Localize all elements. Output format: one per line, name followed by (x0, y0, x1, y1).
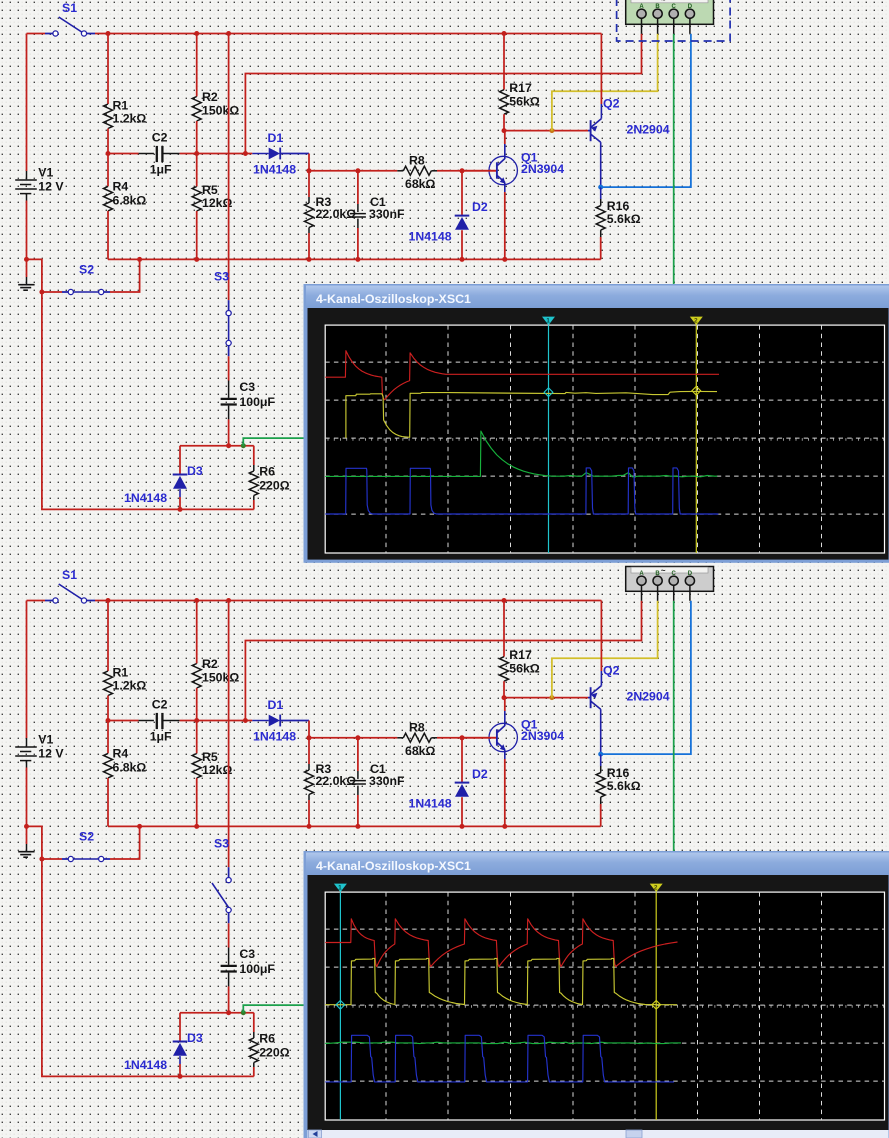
svg-text:1: 1 (338, 885, 342, 892)
svg-text:56kΩ: 56kΩ (509, 95, 540, 109)
cursor 1 (cyan) b (339, 892, 341, 1120)
node junction S1-R1 (106, 31, 111, 36)
resistor R4 (copy 2) (107, 721, 109, 754)
node junction R3-bottom rail (copy 2) (307, 824, 312, 829)
wire green pin C (673, 34, 675, 287)
node junction rail-R17 (502, 31, 507, 36)
svg-text:R2: R2 (202, 657, 218, 671)
svg-text:6.8kΩ: 6.8kΩ (113, 761, 147, 775)
transistor Q2 2N2904 (590, 120, 592, 141)
svg-text:S2: S2 (79, 830, 94, 844)
battery V1 (26, 34, 28, 172)
svg-text:1.2kΩ: 1.2kΩ (113, 679, 147, 693)
wire battery to S2 (copy 2) (27, 826, 42, 859)
node junction yellow tap (copy 2) (549, 695, 554, 700)
wire S3 to C3 (228, 356, 230, 380)
node junction D2-bottom rail (copy 2) (460, 824, 465, 829)
node junction R2-C2 (194, 151, 199, 156)
wire top V+ rail (27, 33, 46, 35)
scope grid a (325, 325, 884, 553)
svg-text:R5: R5 (202, 183, 218, 197)
svg-text:D3: D3 (187, 464, 203, 478)
scope grid b (325, 892, 884, 1120)
node junction green tap (copy 2) (241, 1010, 246, 1015)
svg-text:5.6kΩ: 5.6kΩ (607, 779, 641, 793)
svg-text:R6: R6 (259, 1032, 275, 1046)
channel C trace (green) a (325, 431, 717, 477)
connector XSC1 terminals block (626, 0, 714, 24)
transistor Q1 2N3904 (copy 2) (489, 723, 517, 751)
wire base row (309, 170, 397, 172)
channel D trace (blue) b (325, 1035, 674, 1082)
channel D trace (blue) a (325, 468, 718, 514)
node junction Q1 emitter-bottom rail (copy 2) (502, 824, 507, 829)
svg-text:~: ~ (661, 566, 666, 575)
node junction R17-Q1 collector (copy 2) (502, 695, 507, 700)
cursor crossing marker 1 b (336, 1000, 345, 1009)
channel B trace (yellow) a (346, 391, 717, 438)
ground (26, 277, 28, 285)
title bar b (306, 853, 889, 875)
wire S3 to C3 (copy 2) (228, 923, 230, 947)
switch S3 (closed) (228, 300, 230, 310)
wire pin A rail (copy 2) (245, 601, 641, 721)
svg-text:S1: S1 (62, 568, 77, 582)
scope body a (308, 308, 889, 560)
scope screen b (325, 892, 884, 1120)
svg-text:2: 2 (694, 318, 698, 325)
connector XSC1 terminals block (copy 2) (626, 567, 714, 592)
svg-text:R8: R8 (409, 154, 425, 168)
resistor R8 68k (copy 2) (397, 737, 403, 739)
svg-text:68kΩ: 68kΩ (405, 177, 436, 191)
wire S3 riser (228, 34, 230, 301)
wire D1 cathode down (copy 2) (308, 721, 310, 738)
diode D2 1N4148 (460, 168, 465, 173)
wire top V+ rail (copy 2) (27, 600, 46, 602)
svg-text:12 V: 12 V (38, 747, 64, 761)
cursor crossing marker 2 b (652, 1000, 661, 1009)
resistor R3 22k (copy 2) (308, 738, 310, 764)
node junction Q1 emitter-bottom rail (502, 257, 507, 262)
capacitor C1 330nF (copy 2) (355, 735, 360, 740)
resistor R5 (copy 2) (196, 721, 198, 754)
svg-text:D3: D3 (187, 1031, 203, 1045)
node junction R2-C2 (copy 2) (194, 718, 199, 723)
svg-text:2: 2 (654, 885, 658, 892)
wire Q2 emitter to V+ rail (600, 34, 602, 105)
svg-text:1.2kΩ: 1.2kΩ (113, 112, 147, 126)
wire S2 to bottom rail (110, 259, 140, 292)
channel A trace (red) b (325, 919, 677, 967)
resistor R16 5.6k (copy 2) (600, 754, 602, 766)
svg-text:S2: S2 (79, 263, 94, 277)
wire pin A rail (245, 34, 641, 154)
node junction S2-left (39, 290, 44, 295)
svg-text:R1: R1 (113, 666, 129, 680)
wire blue pin D (601, 34, 691, 187)
svg-text:Q2: Q2 (603, 97, 620, 111)
svg-text:V1: V1 (38, 733, 53, 747)
node junction rail-S3 (copy 2) (226, 598, 231, 603)
svg-text:1N4148: 1N4148 (124, 1058, 167, 1072)
channel B trace (yellow) b (325, 958, 677, 1004)
node junction D1-R3-R8 (copy 2) (307, 735, 312, 740)
node junction rail-R17 (copy 2) (502, 598, 507, 603)
resistor R2 (copy 2) (196, 601, 198, 664)
wire blue pin D (copy 2) (601, 601, 691, 754)
svg-text:R17: R17 (509, 81, 532, 95)
node junction S1-R1 (copy 2) (106, 598, 111, 603)
wire green to scope (243, 438, 304, 446)
svg-text:R6: R6 (259, 465, 275, 479)
wire S3 riser (copy 2) (228, 601, 230, 868)
resistor R17 56k (503, 34, 505, 90)
svg-text:6.8kΩ: 6.8kΩ (113, 194, 147, 208)
node junction D3-bottom (copy 2) (178, 1074, 183, 1079)
svg-text:C2: C2 (152, 131, 168, 145)
svg-text:150kΩ: 150kΩ (202, 671, 239, 685)
switch S1 (45, 33, 53, 35)
wire yellow pin B (552, 34, 658, 131)
capacitor C2 (copy 2) (108, 720, 139, 722)
node junction C2 row-pinA drop (243, 151, 248, 156)
switch S2 (closed) (copy 2) (42, 858, 62, 860)
wire battery to S2 (27, 259, 42, 292)
resistor R6 220 (253, 446, 255, 465)
diode D3 1N4148 (179, 446, 181, 475)
svg-text:1N4148: 1N4148 (409, 797, 452, 811)
cursor crossing marker 2 a (692, 386, 701, 395)
svg-text:D1: D1 (268, 131, 284, 145)
resistor R3 22k (308, 171, 310, 197)
resistor R5 (196, 154, 198, 187)
wire D1 cathode down (308, 154, 310, 171)
svg-text:2N3904: 2N3904 (521, 729, 564, 743)
wire C2 to D1 node (180, 153, 246, 155)
diode D2 1N4148 (copy 2) (460, 735, 465, 740)
resistor R17 56k (copy 2) (503, 601, 505, 657)
scope time axis a (325, 437, 884, 439)
svg-text:~: ~ (661, 0, 666, 4)
svg-text:R2: R2 (202, 90, 218, 104)
wire green pin C (copy 2) (673, 601, 675, 1138)
node junction C1-bottom rail (copy 2) (355, 824, 360, 829)
switch S3 (open) (copy 2) (228, 867, 230, 877)
resistor R4 (107, 154, 109, 187)
node junction D2-bottom rail (460, 257, 465, 262)
diode D1 1N4148 (245, 153, 252, 155)
wire yellow pin B (copy 2) (552, 601, 658, 698)
resistor R2 (196, 34, 198, 97)
svg-text:68kΩ: 68kΩ (405, 744, 436, 758)
node junction rail-R2 (194, 31, 199, 36)
node junction C3-D3 row (copy 2) (226, 1010, 231, 1015)
svg-text:S3: S3 (214, 270, 229, 284)
capacitor C3 100uF (copy 2) (228, 948, 230, 965)
svg-text:R8: R8 (409, 721, 425, 735)
svg-text:S3: S3 (214, 837, 229, 851)
wire left drop to D3 row (42, 292, 254, 509)
wire bottom rail (copy 2) (108, 825, 601, 827)
resistor R16 5.6k (600, 187, 602, 199)
svg-text:56kΩ: 56kΩ (509, 662, 540, 676)
node junction green tap (241, 443, 246, 448)
svg-text:Q2: Q2 (603, 664, 620, 678)
node junction bottom rail-S2 (copy 2) (137, 824, 142, 829)
node junction D1-R3-R8 (307, 168, 312, 173)
wire bottom rail (108, 258, 601, 260)
cursor 2 (yellow) a (695, 325, 697, 553)
scope screen a (325, 325, 884, 553)
node junction R17-Q1 collector (502, 128, 507, 133)
svg-text:4-Kanal-Oszilloskop-XSC1: 4-Kanal-Oszilloskop-XSC1 (316, 859, 471, 873)
node junction Q2 collector-R16 (598, 185, 603, 190)
svg-text:D2: D2 (472, 200, 488, 214)
node junction R3-bottom rail (307, 257, 312, 262)
scope time axis b (325, 1004, 884, 1006)
svg-text:C3: C3 (239, 947, 255, 961)
node junction rail-R2 (copy 2) (194, 598, 199, 603)
diode D1 1N4148 (copy 2) (245, 720, 252, 722)
node junction battery-ground (copy 2) (24, 824, 29, 829)
svg-text:220Ω: 220Ω (259, 479, 290, 493)
channel C trace (green) b (325, 1042, 681, 1043)
wire C2 to D1 node (copy 2) (180, 720, 246, 722)
node junction yellow tap (549, 128, 554, 133)
svg-text:1N4148: 1N4148 (409, 230, 452, 244)
selection dashed box (617, 0, 731, 41)
capacitor C1 330nF (355, 168, 360, 173)
diode D3 1N4148 (copy 2) (179, 1013, 181, 1042)
svg-text:1μF: 1μF (150, 163, 172, 177)
cursor 2 (yellow) b (655, 892, 657, 1120)
resistor R1 (107, 34, 109, 105)
node junction C1-bottom rail (355, 257, 360, 262)
svg-text:R5: R5 (202, 750, 218, 764)
node junction R5-bottom rail (copy 2) (194, 824, 199, 829)
capacitor C3 100uF (228, 381, 230, 398)
svg-text:100μF: 100μF (239, 962, 275, 976)
resistor R8 68k (397, 170, 403, 172)
svg-text:D2: D2 (472, 767, 488, 781)
svg-text:1N4148: 1N4148 (253, 730, 296, 744)
node junction battery-ground (24, 257, 29, 262)
wire battery minus (copy 2) (26, 768, 28, 845)
node junction R1-C2 (106, 151, 111, 156)
horizontal scrollbar b (308, 1130, 889, 1138)
transistor Q1 2N3904 (489, 156, 517, 184)
svg-text:2N3904: 2N3904 (521, 162, 564, 176)
node junction D3-bottom (178, 507, 183, 512)
wire D3 top row (copy 2) (180, 1012, 254, 1014)
cursor 1 (cyan) a (548, 325, 550, 553)
svg-text:1μF: 1μF (150, 730, 172, 744)
node junction bottom rail-S2 (137, 257, 142, 262)
cursor crossing marker 1 a (544, 388, 553, 397)
node junction S2-left (copy 2) (39, 857, 44, 862)
svg-text:1N4148: 1N4148 (253, 163, 296, 177)
svg-text:R16: R16 (607, 199, 630, 213)
wire Q2 base row (copy 2) (504, 697, 588, 699)
svg-text:100μF: 100μF (239, 395, 275, 409)
wire left drop to D3 row (copy 2) (42, 859, 254, 1076)
wire battery minus (26, 201, 28, 278)
svg-text:5.6kΩ: 5.6kΩ (607, 212, 641, 226)
switch S1 (copy 2) (45, 600, 53, 602)
channel A trace (red) a (325, 351, 719, 400)
ground (copy 2) (26, 844, 28, 852)
switch S2 (closed) (42, 291, 62, 293)
svg-text:220Ω: 220Ω (259, 1046, 290, 1060)
svg-text:150kΩ: 150kΩ (202, 104, 239, 118)
node junction C2 row-pinA drop (copy 2) (243, 718, 248, 723)
wire green to scope (copy 2) (243, 1005, 304, 1013)
svg-text:D1: D1 (268, 698, 284, 712)
transistor Q2 2N2904 (copy 2) (590, 687, 592, 708)
svg-text:C3: C3 (239, 380, 255, 394)
svg-text:2N2904: 2N2904 (627, 690, 670, 704)
svg-text:S1: S1 (62, 1, 77, 15)
svg-text:R4: R4 (113, 180, 129, 194)
wire base row (copy 2) (309, 737, 397, 739)
capacitor C2 (108, 153, 139, 155)
svg-text:330nF: 330nF (369, 774, 405, 788)
svg-text:C2: C2 (152, 698, 168, 712)
scope body b (308, 875, 889, 1136)
node junction C3-D3 row (226, 443, 231, 448)
svg-text:12 V: 12 V (38, 180, 64, 194)
svg-text:1: 1 (546, 318, 550, 325)
svg-text:4-Kanal-Oszilloskop-XSC1: 4-Kanal-Oszilloskop-XSC1 (316, 292, 471, 306)
resistor R1 (copy 2) (107, 601, 109, 672)
wire S2 to bottom rail (copy 2) (110, 826, 140, 859)
node junction rail-S3 (226, 31, 231, 36)
svg-text:330nF: 330nF (369, 207, 405, 221)
title bar a (306, 286, 889, 308)
wire Q2 emitter to V+ rail (copy 2) (600, 601, 602, 672)
svg-text:R16: R16 (607, 766, 630, 780)
svg-text:V1: V1 (38, 166, 53, 180)
svg-text:R1: R1 (113, 99, 129, 113)
node junction Q2 collector-R16 (copy 2) (598, 752, 603, 757)
svg-text:R17: R17 (509, 648, 532, 662)
node junction R5-bottom rail (194, 257, 199, 262)
wire D3 top row (180, 445, 254, 447)
wire Q2 base row (504, 130, 588, 132)
node junction R1-C2 (copy 2) (106, 718, 111, 723)
svg-text:1N4148: 1N4148 (124, 491, 167, 505)
oscilloscope window XSC1 b (304, 851, 889, 1138)
svg-text:2N2904: 2N2904 (627, 123, 670, 137)
oscilloscope window XSC1 a (304, 284, 889, 563)
battery V1 (copy 2) (26, 601, 28, 739)
svg-text:R4: R4 (113, 747, 129, 761)
resistor R6 220 (copy 2) (253, 1013, 255, 1032)
